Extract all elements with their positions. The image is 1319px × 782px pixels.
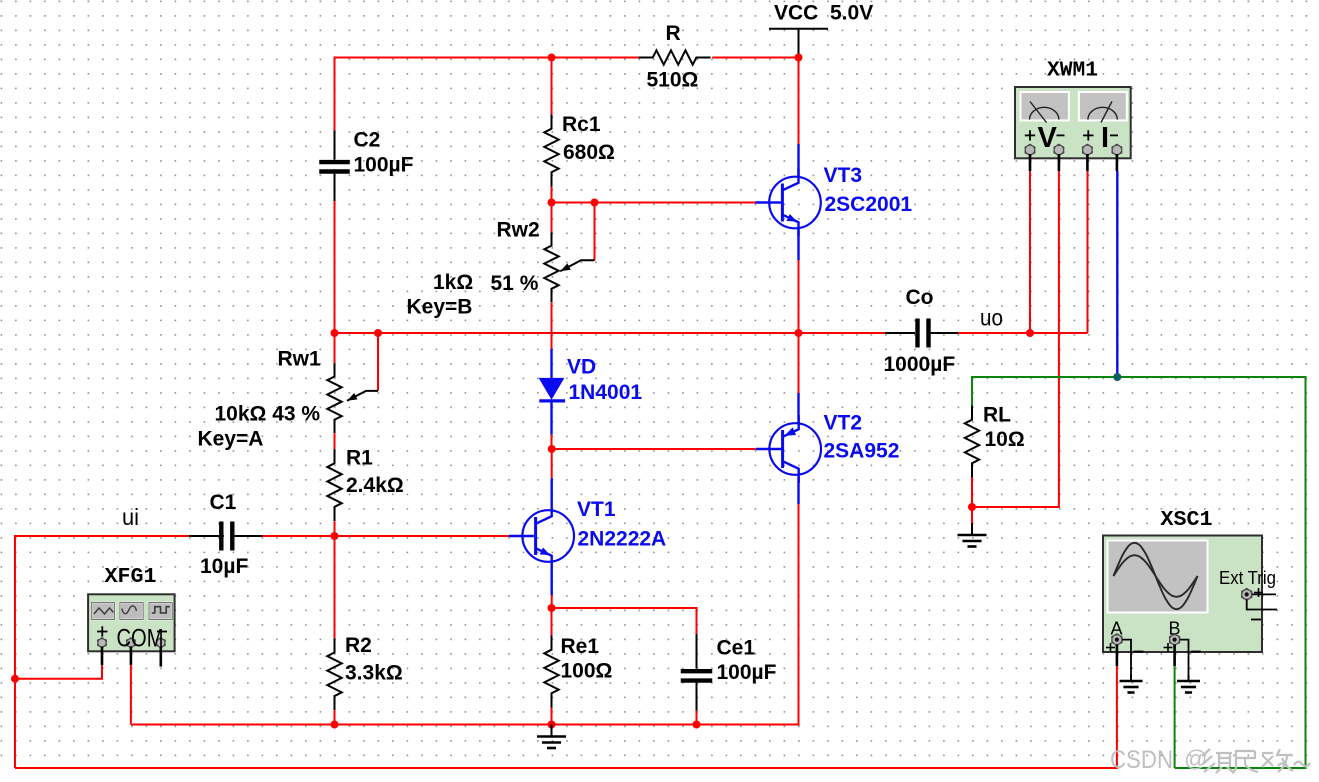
terminal XWM1 V- [1054, 144, 1064, 155]
wire Co to wattmeter V+ / I+ (uo net) [958, 332, 1087, 334]
resistor R2 [327, 638, 341, 710]
resistor R1 [327, 449, 341, 521]
svg-text:C1: C1 [210, 491, 237, 514]
junction ground rail / Re1 [548, 721, 556, 729]
svg-text:1N4001: 1N4001 [569, 381, 643, 404]
pin V+ of XWM1 [1025, 134, 1035, 136]
junction green net / XWM1 I- [1113, 373, 1121, 381]
wire Re1 bottom to ground rail [551, 708, 553, 725]
terminal XWM1 I+ [1082, 144, 1092, 155]
svg-text:RL: RL [983, 404, 1011, 427]
svg-text:Ext Trig: Ext Trig [1219, 568, 1276, 588]
wire VT3 base rail [552, 202, 756, 204]
wire R2 bottom to ground rail [334, 710, 336, 724]
junction RL bottom / wattmeter V- [968, 503, 976, 511]
terminal XWM1 V+ [1025, 144, 1035, 155]
instrument XWM1 wattmeter [1015, 87, 1131, 158]
wire C2 bottom to mid rail [334, 201, 336, 333]
svg-text:uo: uo [980, 305, 1003, 331]
transistor VT2 (PNP) [769, 423, 821, 475]
svg-text:2SC2001: 2SC2001 [825, 193, 913, 216]
svg-text:R2: R2 [345, 634, 372, 657]
svg-text:10kΩ 43 %: 10kΩ 43 % [215, 403, 321, 426]
instrument XFG1 function generator [88, 594, 175, 651]
svg-text:2N2222A: 2N2222A [578, 528, 667, 551]
pin + of XFG1 [97, 631, 107, 633]
wire VT1 emitter down [551, 570, 553, 595]
svg-text:C2: C2 [354, 128, 381, 151]
svg-text:VT2: VT2 [824, 412, 863, 435]
wire XFG1 COM to ground rail [130, 647, 133, 725]
svg-text:COM: COM [117, 625, 164, 653]
pin + of Ext Trig [1254, 592, 1263, 594]
wiper arrow Rw2 [560, 260, 594, 271]
junction Rw2 wiper node [591, 199, 599, 207]
wire C1 to input node [263, 535, 335, 537]
ground symbol at Re1 [551, 725, 553, 737]
instrument XSC1 oscilloscope [1103, 536, 1262, 653]
svg-text:Rw2: Rw2 [497, 219, 540, 242]
wire Rc1 to VT3 base node [551, 187, 553, 203]
wiper arrow Rw1 [347, 391, 378, 401]
pin V- of XWM1 [1057, 134, 1065, 136]
svg-text:Rw1: Rw1 [278, 348, 322, 371]
watermark CSDN [1110, 746, 1207, 775]
svg-text:I: I [1101, 122, 1109, 154]
svg-text:@: @ [1184, 746, 1207, 772]
wire VT3 emitter down to output rail [797, 229, 799, 261]
svg-text:XWM1: XWM1 [1047, 59, 1098, 82]
wire VCC node down to VT3 collector [798, 58, 800, 145]
wire Rw1 wiper connection [377, 333, 379, 391]
wire VD cathode to VT1 collector node [550, 403, 552, 435]
pin I+ of XWM1 [1083, 134, 1093, 136]
svg-text:2SA952: 2SA952 [824, 439, 900, 462]
svg-text:100Ω: 100Ω [561, 659, 613, 682]
junction mid rail / Rw1 wiper [374, 329, 382, 337]
terminal XFG1 - [156, 638, 165, 648]
wire resistor R to VCC node [712, 57, 798, 59]
svg-text:3.3kΩ: 3.3kΩ [345, 662, 403, 685]
junction uo / wattmeter V+ [1026, 329, 1034, 337]
diode VD (1N4001) [539, 378, 566, 401]
svg-text:680Ω: 680Ω [563, 141, 615, 164]
svg-text:VT3: VT3 [824, 164, 863, 187]
wire ground rail [131, 724, 799, 726]
svg-text:VT1: VT1 [577, 498, 616, 521]
ground symbol at RL [971, 523, 973, 535]
pin I- of XWM1 [1110, 134, 1118, 136]
svg-text:Key=A: Key=A [198, 428, 264, 451]
terminal XFG1 + [97, 638, 106, 648]
junction at VCC node [795, 54, 803, 62]
terminal XSC1 Ext Trig [1241, 589, 1252, 601]
wire top rail to Rc1 [551, 58, 553, 115]
junction mid rail / C2 column [331, 329, 339, 337]
wire input node down to R2 [334, 536, 336, 638]
svg-text:VD: VD [567, 355, 596, 378]
svg-text:Re1: Re1 [561, 635, 600, 658]
ground symbol at XSC1 B [1188, 675, 1190, 681]
capacitor C2 [319, 130, 350, 201]
capacitor Ce1 [681, 634, 713, 711]
wire XWM1 V+ down to uo node [1029, 154, 1032, 333]
junction mid rail / VT3-VT2 column [795, 329, 803, 337]
potentiometer Rw2 [544, 232, 558, 302]
resistor RL [965, 406, 979, 478]
wire VT2 collector down to bottom rail [797, 475, 799, 504]
wire RL junction to ground symbol [971, 507, 973, 523]
wire XSC1 A ground bracket [1122, 640, 1131, 681]
wire XWM1 I- down to green node [1116, 154, 1119, 377]
wire bottom rail (XFG1+ to XSC1 A) [15, 666, 1117, 768]
terminal XSC1 A [1112, 634, 1123, 646]
svg-text:Key=B: Key=B [407, 296, 473, 319]
terminal XSC1 B [1169, 634, 1180, 646]
capacitor C1 [189, 522, 263, 551]
junction VT1 emitter / Re1 / Ce1 [548, 604, 556, 612]
resistor R [639, 50, 711, 64]
svg-text:10µF: 10µF [200, 555, 248, 578]
wire emitter node to Ce1 top [552, 608, 697, 634]
wire XWM1 V- down to RL bottom [972, 154, 1059, 507]
svg-text:100µF: 100µF [354, 154, 414, 177]
wire XFG1 + to left rail [15, 647, 102, 679]
capacitor Co [885, 319, 958, 348]
junction left rail / XFG1 + [11, 675, 19, 683]
junction Rc1 / Rw2 node [548, 199, 556, 207]
svg-text:Co: Co [906, 286, 934, 309]
wire node to Rw2 top [551, 203, 553, 233]
svg-text:VCC: VCC [774, 2, 818, 25]
svg-text:2.4kΩ: 2.4kΩ [346, 474, 404, 497]
pin - of XFG1 [157, 631, 167, 633]
ground symbol at XSC1 A [1130, 675, 1132, 681]
terminal XFG1 COM [126, 638, 135, 648]
wire top rail left (C2 top to resistor R) [335, 58, 639, 131]
svg-text:Rc1: Rc1 [562, 113, 601, 136]
svg-text:10Ω: 10Ω [985, 428, 1025, 451]
resistor Re1 [544, 636, 558, 708]
svg-text:1000µF: 1000µF [884, 353, 956, 376]
svg-text:R1: R1 [346, 446, 373, 469]
wire Rw1 bottom to R1 [334, 433, 336, 449]
svg-text:1kΩ: 1kΩ [433, 271, 473, 294]
wire R1 bottom to input node [334, 521, 336, 536]
pin + of B [1164, 647, 1173, 649]
wire Rw2 wiper connection [594, 203, 596, 261]
wire Rw2 bottom to mid rail [551, 302, 553, 333]
svg-text:100µF: 100µF [717, 661, 777, 684]
wire XSC1 A to bottom rail [1116, 645, 1119, 666]
wire XWM1 I+ down to uo node [1086, 154, 1089, 333]
wire left rail from input cap [15, 536, 189, 768]
svg-text:CSDN: CSDN [1110, 746, 1173, 774]
wire emitter node down to Re1 [551, 608, 553, 636]
pin + of A [1106, 647, 1115, 649]
junction input node R1/C1/VT1 [331, 532, 339, 540]
wire XSC1 B down (green) [1173, 645, 1176, 768]
transistor VT1 (NPN) [522, 510, 574, 562]
pin - of A [1134, 651, 1144, 653]
wire Ce1 bottom to ground rail [696, 711, 698, 725]
wire Ext Trig stubs [1247, 594, 1277, 619]
svg-text:R: R [666, 22, 681, 45]
svg-text:Ce1: Ce1 [717, 637, 756, 660]
wire mid rail to Rw1 top [334, 333, 336, 363]
node VCC power symbol 5.0V [769, 2, 873, 58]
svg-text:XFG1: XFG1 [105, 566, 157, 589]
wire mid rail (output node) [335, 332, 886, 334]
wire input rail to VT1 base [335, 535, 509, 537]
svg-text:51 %: 51 % [491, 272, 539, 295]
junction ground rail / Ce1 [693, 721, 701, 729]
transistor VT3 (NPN) [769, 177, 821, 229]
junction ground rail / R2 [331, 721, 339, 729]
svg-text:ui: ui [122, 504, 139, 530]
terminal XWM1 I- [1112, 144, 1122, 155]
junction VT1 collector / VT2 base node [548, 445, 556, 453]
wire RL bottom to ground [971, 478, 973, 508]
wire XFG1 - stub [160, 647, 163, 667]
wire mid rail down to VT2 emitter [798, 333, 800, 393]
svg-text:5.0V: 5.0V [830, 2, 873, 25]
wire green net RL top [972, 377, 1306, 768]
pin - of B [1191, 651, 1201, 653]
wire XSC1 B ground bracket [1180, 640, 1189, 681]
resistor Rc1 [544, 115, 558, 187]
wire junction down to VT1 collector [551, 449, 553, 478]
watermark CJK glyph strokes [1202, 749, 1310, 773]
potentiometer Rw1 [327, 363, 341, 433]
wire VT1 collector node to VT2 base [552, 448, 756, 450]
svg-text:510Ω: 510Ω [647, 69, 699, 92]
svg-text:XSC1: XSC1 [1161, 509, 1213, 532]
junction top rail / Rc1 column [548, 54, 556, 62]
wire mid rail to VD anode [551, 333, 553, 349]
